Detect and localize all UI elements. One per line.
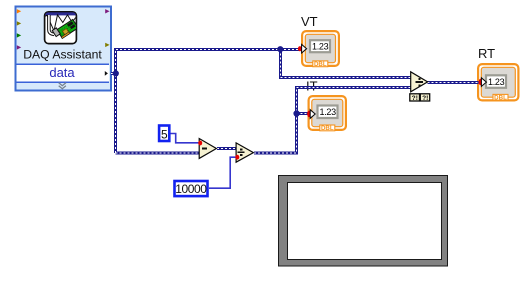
svg-text:5: 5 [161, 127, 168, 141]
svg-text:IT: IT [306, 78, 318, 93]
svg-text:DBL: DBL [314, 61, 327, 68]
svg-text:10000: 10000 [175, 182, 207, 196]
svg-text:?!: ?! [422, 95, 428, 102]
svg-text:DBL: DBL [494, 94, 507, 101]
svg-text:DAQ Assistant: DAQ Assistant [23, 47, 102, 61]
svg-text:RT: RT [478, 46, 495, 61]
svg-text:1.23: 1.23 [320, 107, 337, 117]
svg-text:VT: VT [301, 14, 318, 29]
svg-text:1.23: 1.23 [488, 77, 505, 87]
svg-text:DBL: DBL [321, 125, 334, 132]
svg-text:?!: ?! [412, 95, 418, 102]
svg-text:data: data [49, 65, 75, 80]
svg-text:1.23: 1.23 [312, 42, 329, 52]
